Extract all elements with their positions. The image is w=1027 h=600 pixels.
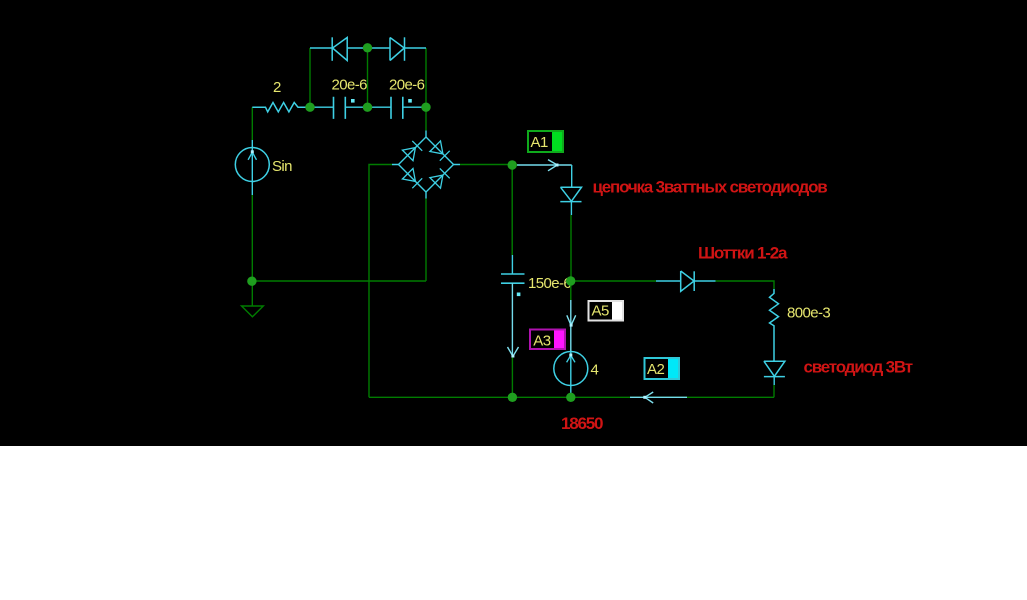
wire: left vertical from diode row to cap row xyxy=(309,48,311,107)
value 4 xyxy=(591,362,599,379)
diode D5 LED 3W xyxy=(764,361,785,385)
node dot bridge output xyxy=(508,160,517,169)
svg-text:20e-6: 20e-6 xyxy=(389,77,425,94)
svg-text:A1: A1 xyxy=(531,134,549,151)
wire: source V1 to ground node xyxy=(251,182,253,282)
svg-text:150e-6: 150e-6 xyxy=(528,275,571,292)
ammeter A1 xyxy=(527,130,564,153)
wire: bridge bottom to lower bus xyxy=(425,199,427,282)
value 20e-6 (C1) xyxy=(332,77,368,94)
ammeter A2 xyxy=(644,357,681,380)
wire: middle vertical between diodes and caps xyxy=(367,48,369,107)
node dot cap row middle xyxy=(363,103,372,112)
voltage source V1 (Sin) xyxy=(235,148,269,182)
capacitor C2 20e-6 xyxy=(368,97,427,119)
svg-text:Sin: Sin xyxy=(272,158,292,175)
wire: cap branch from node down xyxy=(511,165,513,274)
note: 18650 label xyxy=(561,414,603,433)
node dot ground xyxy=(247,277,256,286)
svg-text:2: 2 xyxy=(273,79,281,96)
current arrow on cap branch xyxy=(508,347,519,358)
wire: LED 3W down to bottom rail xyxy=(773,385,775,397)
value 800e-3 xyxy=(787,305,830,322)
battery source V2 (18650) xyxy=(554,352,588,386)
note: LED 3W label xyxy=(804,358,913,377)
wire: cap C3 bottom lead with current arrow xyxy=(511,283,513,397)
svg-text:Шоттки 1-2а: Шоттки 1-2а xyxy=(698,244,788,263)
wire: ground bus horizontal xyxy=(252,280,426,282)
value 150e-6 xyxy=(528,275,571,292)
bridge rectifier outline xyxy=(392,131,460,199)
value 20e-6 (C2) xyxy=(389,77,425,94)
diode D1 (top left, pointing left) xyxy=(310,37,390,61)
bridge diode bottom-left xyxy=(402,168,422,188)
diode D2 (top right, pointing right) xyxy=(390,37,426,61)
svg-text:A2: A2 xyxy=(647,361,665,378)
wire: bottom rail xyxy=(369,396,774,398)
current arrow on battery branch xyxy=(567,315,576,326)
wire: bridge left corner to left drop xyxy=(369,165,392,398)
svg-text:800e-3: 800e-3 xyxy=(787,305,830,322)
note: Schottky label xyxy=(698,244,788,263)
node dot rail cap branch xyxy=(508,393,517,402)
diode D3 LED chain xyxy=(560,165,581,215)
node dot cap row right xyxy=(421,103,430,112)
bridge diode bottom-right xyxy=(430,168,450,188)
value 2 xyxy=(273,79,281,96)
wire: node to Schottky xyxy=(571,280,681,282)
wire: resistor R1 left lead down to source V1 xyxy=(251,107,253,147)
svg-text:4: 4 xyxy=(591,362,599,379)
wire: Schottky to right branch xyxy=(716,281,775,289)
node dot rail battery xyxy=(566,393,575,402)
resistor R2 800e-3 xyxy=(770,289,779,361)
wire: bridge right corner to node xyxy=(460,164,512,166)
ground xyxy=(242,281,264,317)
wire: right vertical from diode row through cap row to bridge xyxy=(425,48,427,131)
wire: battery branch from node down with current arrow xyxy=(570,281,572,352)
node dot LED chain bottom xyxy=(566,276,575,285)
node dot cap row left xyxy=(305,103,314,112)
ammeter A3 xyxy=(529,329,566,351)
capacitor C1 20e-6 xyxy=(310,97,368,119)
note: LED chain label xyxy=(593,178,828,197)
svg-text:светодиод 3Вт: светодиод 3Вт xyxy=(804,358,913,377)
ammeter A5 xyxy=(588,300,625,322)
svg-text:A5: A5 xyxy=(592,302,610,319)
wire: node to LED chain with current arrow xyxy=(512,164,572,166)
schematic background xyxy=(0,0,1027,446)
svg-text:цепочка 3ваттных светодиодов: цепочка 3ваттных светодиодов xyxy=(593,178,828,197)
capacitor C3 150e-6 xyxy=(501,274,525,296)
label Sin xyxy=(272,158,292,175)
svg-text:20e-6: 20e-6 xyxy=(332,77,368,94)
wire: battery to bottom rail xyxy=(570,386,572,398)
wire: LED chain to node xyxy=(570,215,572,281)
resistor R1 xyxy=(252,103,310,112)
node dot diode row xyxy=(363,43,372,52)
current arrow on bottom rail (pointing left) xyxy=(643,392,653,403)
bridge diode top-left xyxy=(402,141,422,161)
diode D4 Schottky xyxy=(681,271,716,291)
current arrow A1 direction xyxy=(548,160,559,171)
svg-text:A3: A3 xyxy=(533,333,551,350)
bridge diode top-right xyxy=(430,141,450,161)
svg-text:18650: 18650 xyxy=(561,414,603,433)
